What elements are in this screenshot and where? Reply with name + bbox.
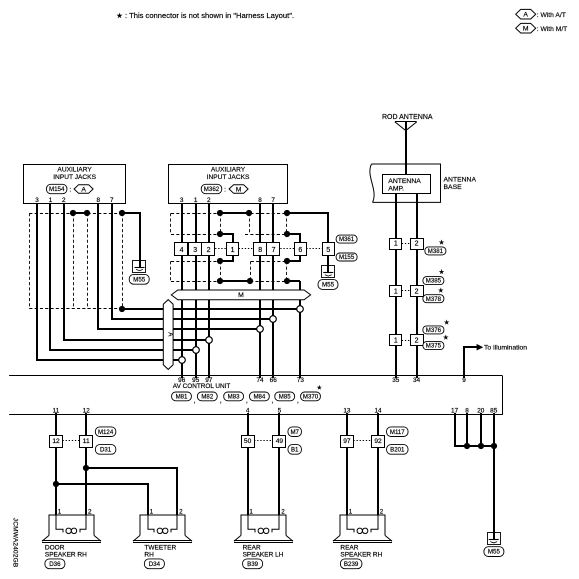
- auxiliary input jacks M362 box: [169, 165, 288, 204]
- svg-text:DOOR: DOOR: [45, 545, 65, 552]
- note star legend: [116, 11, 294, 20]
- junction dot front left ch+: [53, 481, 59, 487]
- rear speaker LH B39: [234, 508, 293, 568]
- svg-text:2: 2: [207, 247, 211, 254]
- connector oval D31: [95, 445, 116, 455]
- wire AV pin12 to door speaker pin2: [85, 415, 87, 515]
- wire M154 pin8 to junction 74: [98, 204, 260, 329]
- svg-text:B39: B39: [247, 561, 259, 568]
- svg-text:34: 34: [413, 377, 421, 384]
- AV bottom pin ticks and labels: [53, 407, 498, 415]
- svg-text:1: 1: [58, 508, 62, 515]
- illumination arrow: [477, 344, 484, 351]
- svg-text:M: M: [523, 26, 529, 33]
- svg-text:ROD ANTENNA: ROD ANTENNA: [382, 114, 433, 121]
- svg-text:★: ★: [438, 288, 444, 295]
- svg-text:M: M: [238, 292, 244, 299]
- wire box5 to ground: [327, 255, 329, 266]
- M362 vertical wires to AV control unit: [182, 203, 273, 375]
- svg-text:M7: M7: [290, 429, 299, 436]
- legend hexagon M With M/T: [516, 23, 568, 33]
- svg-text:74: 74: [256, 377, 264, 384]
- wire AV pin85 to ground: [493, 415, 495, 533]
- svg-text:2: 2: [62, 197, 66, 204]
- svg-text:REAR: REAR: [243, 545, 261, 552]
- svg-text:9: 9: [462, 377, 466, 384]
- shield dashed lower M362: [171, 261, 287, 281]
- svg-text:★: ★: [317, 384, 323, 391]
- svg-text::: :: [224, 186, 226, 193]
- svg-text:1: 1: [49, 197, 53, 204]
- svg-text:M: M: [236, 186, 242, 193]
- svg-text:ANTENNA: ANTENNA: [388, 178, 421, 185]
- svg-text:66: 66: [270, 377, 278, 384]
- svg-text:6: 6: [298, 247, 302, 254]
- wire M154 pin2 to junction 97: [64, 204, 209, 340]
- svg-text:5: 5: [326, 247, 330, 254]
- svg-text:AV CONTROL UNIT: AV CONTROL UNIT: [173, 383, 231, 390]
- svg-text:M155: M155: [339, 254, 355, 261]
- wire M154 pin7 to junction 66: [112, 204, 273, 319]
- connector oval M154: [46, 184, 66, 193]
- AV top pin ticks and labels: [178, 375, 466, 384]
- svg-text:7: 7: [271, 197, 275, 204]
- svg-text:M381: M381: [428, 248, 444, 255]
- wire branch to tweeter pin1: [56, 484, 148, 515]
- connector oval M7: [288, 427, 302, 437]
- wire box1 elbow to shield: [217, 255, 233, 264]
- svg-text:M82: M82: [201, 393, 213, 400]
- wire M154 pin3 to junction 96: [37, 204, 182, 360]
- connector pair boxes 1-2 at y=291.0: [390, 286, 424, 297]
- wire shield elbow to box 1: [217, 231, 233, 242]
- harness banner M: [171, 290, 310, 300]
- svg-text:M81: M81: [176, 393, 188, 400]
- svg-text:2: 2: [415, 338, 419, 345]
- svg-text:3: 3: [180, 197, 184, 204]
- svg-text:B1: B1: [291, 446, 299, 453]
- connector row boxes 4 3 2 1 8 7 6 5 (M361/M155): [175, 243, 335, 256]
- svg-text:7: 7: [272, 247, 276, 254]
- svg-text:13: 13: [343, 407, 351, 414]
- connector oval B1: [288, 445, 302, 455]
- svg-text:2: 2: [281, 508, 285, 515]
- svg-text:A: A: [523, 12, 528, 19]
- svg-text:2: 2: [415, 288, 419, 295]
- svg-text:★: ★: [439, 269, 445, 276]
- svg-text:97: 97: [343, 438, 351, 445]
- wire AV pin20 ground branch: [480, 415, 482, 446]
- connector boxes 97-92 M117/B201: [341, 436, 385, 448]
- svg-text:★: ★: [439, 240, 445, 247]
- svg-text:35: 35: [392, 377, 400, 384]
- svg-text:SPEAKER LH: SPEAKER LH: [243, 552, 284, 559]
- svg-text:5: 5: [278, 407, 282, 414]
- svg-text:2: 2: [179, 508, 183, 515]
- svg-text:★: ★: [444, 319, 450, 326]
- shield dots upper M362: [217, 210, 290, 216]
- svg-text:,: ,: [220, 397, 222, 404]
- svg-text:M85: M85: [279, 393, 291, 400]
- svg-text:2: 2: [207, 197, 211, 204]
- svg-text:2: 2: [88, 508, 92, 515]
- svg-text:1: 1: [249, 508, 253, 515]
- antenna symbol: [395, 122, 417, 131]
- wire M154 shield drain to junction 73: [119, 306, 300, 312]
- svg-text:2: 2: [380, 508, 384, 515]
- ground connector oval M55 left: [129, 274, 149, 284]
- hexagon A variant symbol: [74, 185, 93, 194]
- shield dashed upper M362: [171, 213, 287, 234]
- svg-text:AUXILIARY: AUXILIARY: [57, 167, 92, 174]
- svg-text:M378: M378: [426, 296, 442, 303]
- junction circle pin74: [257, 326, 264, 333]
- wire antenna amp pin2 to AV pin34: [416, 193, 418, 375]
- connector pair boxes 1-2 at y=340.2: [390, 335, 424, 346]
- antenna base box: [370, 164, 477, 202]
- legend hexagon A With A/T: [516, 9, 566, 19]
- svg-text:4: 4: [180, 247, 184, 254]
- svg-text:: This connector is not shown: : This connector is not shown in "Harnes…: [125, 11, 294, 20]
- svg-text:8: 8: [258, 197, 262, 204]
- svg-text:M83: M83: [228, 393, 240, 400]
- svg-text:11: 11: [83, 438, 90, 445]
- svg-text:M55: M55: [488, 549, 501, 556]
- svg-text:REAR: REAR: [340, 545, 358, 552]
- svg-text:★: ★: [443, 334, 449, 341]
- svg-text:1: 1: [394, 338, 398, 345]
- svg-text:,: ,: [246, 397, 248, 404]
- svg-text:50: 50: [244, 438, 252, 445]
- hexagon M variant symbol: [229, 185, 248, 194]
- ground connector oval M55 mid: [318, 280, 338, 290]
- ground symbol left: [133, 261, 146, 273]
- shield dashed rectangle M154 branch: [29, 213, 122, 309]
- shield junction dots M154: [70, 210, 125, 216]
- svg-text:ANTENNA: ANTENNA: [444, 176, 477, 183]
- svg-text:49: 49: [276, 438, 284, 445]
- svg-text:D36: D36: [49, 561, 61, 568]
- svg-text:,: ,: [297, 397, 299, 404]
- svg-text:M361: M361: [339, 236, 355, 243]
- svg-text:M375: M375: [426, 343, 442, 350]
- svg-text:SPEAKER RH: SPEAKER RH: [45, 552, 87, 559]
- svg-text:3: 3: [193, 247, 197, 254]
- svg-text:7: 7: [110, 197, 114, 204]
- svg-text:M362: M362: [204, 186, 220, 193]
- svg-text:BASE: BASE: [444, 184, 463, 191]
- wire AV pin5 to rear speaker LH pin2: [278, 415, 280, 515]
- svg-text:,: ,: [194, 397, 196, 404]
- M154 pin labels 3 1 2 8 7: [35, 197, 114, 204]
- auxiliary input jacks M154 box: [24, 165, 126, 204]
- connector oval M361: [336, 235, 357, 243]
- svg-text:M385: M385: [426, 278, 442, 285]
- svg-text:M55: M55: [133, 276, 146, 283]
- svg-text:JCMWA2402GB: JCMWA2402GB: [12, 518, 19, 568]
- svg-text:14: 14: [374, 407, 382, 414]
- ground connector oval M55 right: [484, 547, 504, 557]
- junction circle pin66: [270, 316, 277, 323]
- wire antenna to amp: [405, 122, 407, 174]
- svg-text:M124: M124: [98, 429, 114, 436]
- rear speaker RH B239: [333, 508, 392, 568]
- svg-text:1: 1: [150, 508, 154, 515]
- svg-text:8: 8: [97, 197, 101, 204]
- svg-text:12: 12: [83, 407, 91, 414]
- svg-text:2: 2: [415, 241, 419, 248]
- svg-text:1: 1: [349, 508, 353, 515]
- svg-text:,: ,: [271, 397, 273, 404]
- svg-text:A: A: [81, 186, 86, 193]
- junction circle pin96: [179, 357, 186, 364]
- AV connector ovals M81 M82 M83 M84 M85 M370: [172, 384, 323, 404]
- svg-text:M55: M55: [322, 282, 335, 289]
- svg-text:85: 85: [490, 407, 498, 414]
- junction circle pin97: [206, 337, 213, 344]
- junction circle pin95: [193, 347, 200, 354]
- svg-text:1: 1: [231, 247, 235, 254]
- svg-text:B239: B239: [344, 561, 359, 568]
- svg-text:B201: B201: [390, 446, 405, 453]
- svg-text::: :: [69, 186, 71, 193]
- junction circle pin73: [297, 306, 304, 313]
- svg-text:4: 4: [246, 407, 250, 414]
- svg-text:8: 8: [258, 247, 262, 254]
- connector boxes 50-49 M7/B1: [242, 436, 286, 448]
- ground symbol right: [488, 533, 501, 545]
- ground bus junction dots: [464, 443, 497, 449]
- svg-text:92: 92: [374, 438, 382, 445]
- M362 pin labels 3 1 2 8 7: [180, 197, 276, 204]
- connector label M381 with star: [425, 240, 446, 255]
- svg-text:M154: M154: [49, 186, 65, 193]
- wire AV pin14 to rear speaker RH pin2: [377, 415, 379, 515]
- svg-text:TWEETER: TWEETER: [144, 545, 176, 552]
- svg-text:To illumination: To illumination: [484, 345, 527, 352]
- connector oval M117: [387, 427, 409, 437]
- wire AV pin9 to illumination: [464, 347, 477, 375]
- wire AV pin13 to rear speaker RH pin1: [346, 415, 348, 515]
- wire antenna amp pin1 to AV pin35: [395, 193, 397, 375]
- wire shield M154 to ground: [122, 213, 140, 260]
- wire shield elbow to box 6: [284, 231, 300, 242]
- wire AV pin11 to door speaker pin1: [55, 415, 57, 515]
- svg-text:RH: RH: [144, 552, 154, 559]
- shield dots lower M362: [217, 278, 290, 284]
- svg-text:M370: M370: [303, 393, 319, 400]
- svg-text:12: 12: [52, 438, 60, 445]
- wire branch to tweeter pin2: [86, 468, 177, 515]
- svg-text:1: 1: [394, 288, 398, 295]
- harness banner A: [163, 300, 173, 370]
- connector label M385 with star: [423, 269, 444, 285]
- svg-text:11: 11: [53, 407, 60, 414]
- svg-text:AMP.: AMP.: [388, 185, 404, 192]
- wire shield to junction 73 vertical: [299, 281, 301, 375]
- ground symbol mid: [322, 266, 335, 278]
- antenna amp U1: [383, 175, 431, 194]
- svg-text:73: 73: [297, 377, 305, 384]
- connector oval M362: [201, 184, 222, 193]
- svg-text:: With A/T: : With A/T: [537, 12, 566, 19]
- svg-text:D31: D31: [100, 446, 112, 453]
- door speaker RH D36: [42, 508, 101, 568]
- wire AV pin17 ground branch: [455, 415, 494, 446]
- wire box6 elbow to shield: [284, 255, 300, 264]
- AV control unit box: [9, 375, 502, 415]
- svg-text:D34: D34: [149, 561, 161, 568]
- connector oval M155: [336, 253, 357, 261]
- svg-text:★: ★: [116, 12, 122, 20]
- svg-text:M117: M117: [390, 429, 405, 436]
- svg-text:17: 17: [451, 407, 459, 414]
- connector label M378 with star: [423, 288, 444, 303]
- connector label M376 with star: [423, 319, 450, 334]
- svg-text:M84: M84: [253, 393, 265, 400]
- connector boxes 12-11 M124/D31: [50, 436, 93, 448]
- svg-text:INPUT JACKS: INPUT JACKS: [53, 174, 96, 181]
- svg-text:3: 3: [35, 197, 39, 204]
- svg-text:20: 20: [477, 407, 485, 414]
- svg-text:1: 1: [194, 197, 198, 204]
- wire shield to connector box 5: [287, 213, 328, 242]
- wire shield drain to pin 73 wire: [287, 280, 300, 282]
- connector pair boxes 1-2 at y=243.4: [390, 239, 424, 250]
- svg-text:M376: M376: [426, 327, 442, 334]
- svg-text:8: 8: [465, 407, 469, 414]
- svg-text:SPEAKER RH: SPEAKER RH: [340, 552, 382, 559]
- connector oval B201: [387, 445, 409, 455]
- svg-text:AUXILIARY: AUXILIARY: [211, 167, 246, 174]
- svg-text:INPUT JACKS: INPUT JACKS: [207, 174, 250, 181]
- wire AV pin4 to rear speaker LH pin1: [247, 415, 249, 515]
- connector label M375 with star: [423, 334, 449, 349]
- tweeter RH D34: [133, 508, 192, 568]
- connector oval M124: [95, 427, 116, 437]
- svg-text:: With M/T: : With M/T: [537, 26, 567, 33]
- svg-text:1: 1: [394, 241, 398, 248]
- wire AV pin8 ground branch: [466, 415, 468, 446]
- wire M154 pin1 to junction 95: [50, 204, 196, 350]
- junction dot front left ch-: [83, 465, 89, 471]
